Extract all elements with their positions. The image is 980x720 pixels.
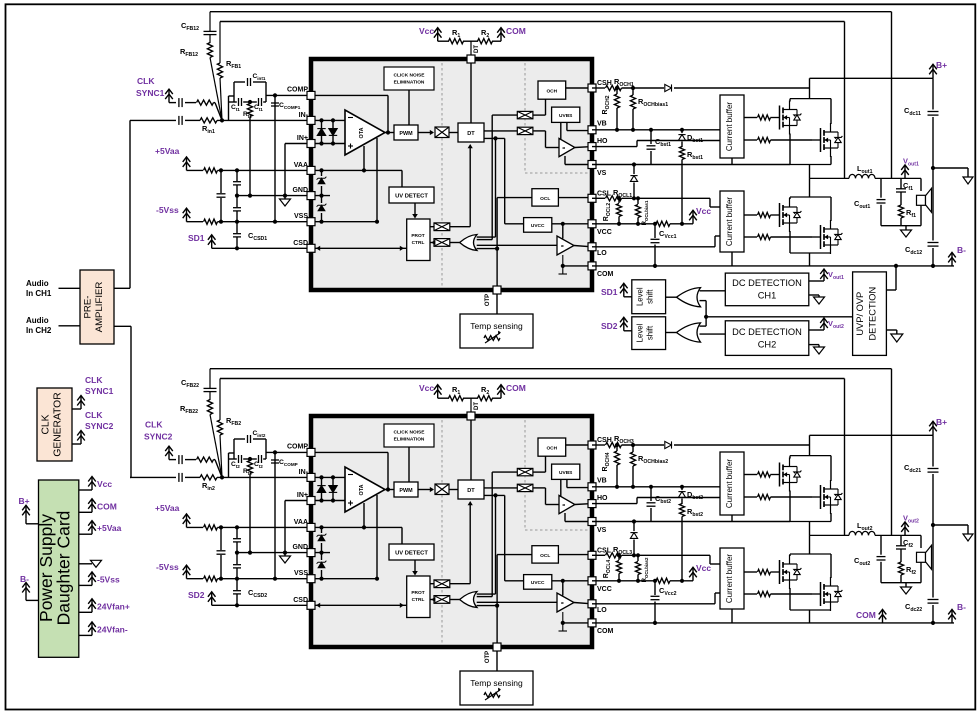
svg-text:Level: Level — [636, 323, 645, 342]
svg-text:GENERATOR: GENERATOR — [53, 392, 64, 456]
svg-text:OTA: OTA — [359, 127, 365, 138]
svg-text:Vcc: Vcc — [696, 206, 711, 216]
svg-text:LO: LO — [597, 607, 607, 614]
svg-text:CLICK NOISE: CLICK NOISE — [394, 430, 426, 436]
svg-text:GND: GND — [292, 187, 308, 194]
svg-text:Daughter Card: Daughter Card — [54, 511, 74, 626]
svg-text:CSH: CSH — [597, 437, 612, 444]
svg-text:COMP: COMP — [287, 444, 308, 451]
svg-text:24Vfan-: 24Vfan- — [97, 624, 128, 634]
svg-text:UV DETECT: UV DETECT — [395, 194, 428, 200]
svg-text:CH2: CH2 — [758, 340, 777, 350]
svg-text:ELIMINATION: ELIMINATION — [394, 80, 425, 86]
svg-text:VAA: VAA — [294, 162, 308, 169]
svg-text:Temp sensing: Temp sensing — [470, 321, 523, 331]
svg-text:CSD: CSD — [293, 240, 308, 247]
svg-text:Audio: Audio — [26, 316, 49, 325]
svg-text:IN+: IN+ — [297, 492, 308, 499]
svg-text:VB: VB — [597, 478, 607, 485]
svg-text:VSS: VSS — [294, 213, 308, 220]
svg-text:UVBS: UVBS — [559, 113, 573, 119]
svg-text:+5Vaa: +5Vaa — [155, 146, 180, 156]
svg-text:DT: DT — [474, 45, 480, 53]
svg-text:CLK: CLK — [137, 76, 155, 86]
svg-text:OCH: OCH — [546, 446, 557, 452]
svg-text:shift: shift — [646, 289, 655, 304]
svg-text:VAA: VAA — [294, 519, 308, 526]
svg-text:CLICK NOISE: CLICK NOISE — [394, 73, 426, 79]
svg-text:PROT: PROT — [411, 233, 424, 239]
svg-text:ELIMINATION: ELIMINATION — [394, 437, 425, 443]
svg-text:CLK: CLK — [145, 420, 163, 430]
svg-text:COM: COM — [597, 628, 614, 635]
svg-text:DETECTION: DETECTION — [868, 287, 878, 341]
svg-text:COM: COM — [97, 501, 117, 511]
svg-text:CSL: CSL — [597, 191, 612, 198]
svg-text:UV DETECT: UV DETECT — [395, 551, 428, 557]
svg-text:SD2: SD2 — [188, 590, 205, 600]
svg-text:B-: B- — [20, 574, 29, 584]
svg-text:OTP: OTP — [485, 651, 491, 663]
svg-text:In CH1: In CH1 — [26, 289, 52, 298]
svg-text:PRE-: PRE- — [83, 296, 94, 319]
svg-text:GND: GND — [292, 544, 308, 551]
svg-text:-5Vss: -5Vss — [97, 574, 120, 584]
svg-text:-5Vss: -5Vss — [156, 205, 179, 215]
svg-text:VCC: VCC — [597, 229, 612, 236]
svg-text:VS: VS — [597, 527, 607, 534]
svg-text:VS: VS — [597, 170, 607, 177]
svg-text:CLK: CLK — [85, 375, 103, 385]
svg-text:In CH2: In CH2 — [26, 326, 52, 335]
svg-text:SD1: SD1 — [188, 233, 205, 243]
svg-text:DT: DT — [474, 402, 480, 410]
svg-text:COM: COM — [856, 610, 876, 620]
svg-text:24Vfan+: 24Vfan+ — [97, 601, 130, 611]
svg-text:OCL: OCL — [540, 196, 550, 202]
svg-text:IN+: IN+ — [297, 135, 308, 142]
svg-text:COM: COM — [506, 383, 526, 393]
svg-text:IN-: IN- — [299, 469, 309, 476]
svg-text:ROCLbias2: ROCLbias2 — [642, 557, 649, 582]
svg-text:PWM: PWM — [399, 131, 413, 137]
svg-text:UVP/ OVP: UVP/ OVP — [855, 292, 865, 336]
svg-text:Level: Level — [636, 287, 645, 306]
svg-text:ROCLbias1: ROCLbias1 — [642, 200, 649, 225]
svg-text:COMP: COMP — [287, 87, 308, 94]
svg-text:CTRL: CTRL — [412, 240, 425, 246]
svg-text:+5Vaa: +5Vaa — [155, 503, 180, 513]
svg-text:B-: B- — [957, 245, 966, 255]
svg-text:CSH: CSH — [597, 80, 612, 87]
svg-text:SYNC2: SYNC2 — [144, 432, 173, 442]
svg-text:Vcc: Vcc — [97, 479, 112, 489]
svg-text:CSL: CSL — [597, 548, 612, 555]
svg-text:Vcc: Vcc — [696, 563, 711, 573]
svg-text:UVCC: UVCC — [531, 580, 545, 586]
svg-text:OCL: OCL — [540, 553, 550, 559]
svg-text:VB: VB — [597, 121, 607, 128]
svg-text:Current buffer: Current buffer — [725, 554, 734, 604]
svg-text:Audio: Audio — [26, 279, 49, 288]
svg-text:HO: HO — [597, 495, 608, 502]
svg-text:Current buffer: Current buffer — [725, 197, 734, 247]
svg-text:VSS: VSS — [294, 570, 308, 577]
svg-text:DT: DT — [467, 488, 475, 494]
svg-text:DC DETECTION: DC DETECTION — [732, 278, 802, 288]
svg-text:CLK: CLK — [41, 414, 52, 434]
svg-text:Temp sensing: Temp sensing — [470, 678, 523, 688]
svg-text:CTRL: CTRL — [412, 597, 425, 603]
svg-text:+5Vaa: +5Vaa — [97, 523, 122, 533]
svg-text:AMPLIFIER: AMPLIFIER — [94, 282, 105, 333]
svg-text:COM: COM — [597, 271, 614, 278]
svg-text:IN-: IN- — [299, 112, 309, 119]
svg-text:OTP: OTP — [485, 294, 491, 306]
svg-text:Vcc: Vcc — [419, 383, 434, 393]
svg-text:Current buffer: Current buffer — [725, 459, 734, 509]
svg-text:HO: HO — [597, 138, 608, 145]
svg-text:-5Vss: -5Vss — [156, 562, 179, 572]
svg-text:VCC: VCC — [597, 586, 612, 593]
svg-text:CLK: CLK — [85, 410, 103, 420]
svg-text:SYNC1: SYNC1 — [136, 88, 165, 98]
svg-text:UVCC: UVCC — [531, 223, 545, 229]
svg-text:shift: shift — [646, 325, 655, 340]
svg-text:B+: B+ — [936, 417, 947, 427]
svg-text:Vcc: Vcc — [419, 26, 434, 36]
svg-text:SYNC2: SYNC2 — [85, 421, 114, 431]
svg-text:CH1: CH1 — [758, 291, 777, 301]
svg-text:DC DETECTION: DC DETECTION — [732, 327, 802, 337]
svg-text:SD2: SD2 — [601, 321, 618, 331]
svg-text:PWM: PWM — [399, 488, 413, 494]
svg-text:OCH: OCH — [546, 89, 557, 95]
svg-text:B-: B- — [957, 602, 966, 612]
svg-text:Current buffer: Current buffer — [725, 102, 734, 152]
svg-text:COM: COM — [506, 26, 526, 36]
svg-text:SYNC1: SYNC1 — [85, 386, 114, 396]
svg-text:B+: B+ — [19, 496, 30, 506]
svg-text:OTA: OTA — [359, 484, 365, 495]
svg-text:SD1: SD1 — [601, 287, 618, 297]
svg-text:DT: DT — [467, 131, 475, 137]
svg-text:B+: B+ — [936, 60, 947, 70]
svg-text:PROT: PROT — [411, 590, 424, 596]
svg-text:CSD: CSD — [293, 597, 308, 604]
svg-text:LO: LO — [597, 250, 607, 257]
svg-text:UVBS: UVBS — [559, 470, 573, 476]
